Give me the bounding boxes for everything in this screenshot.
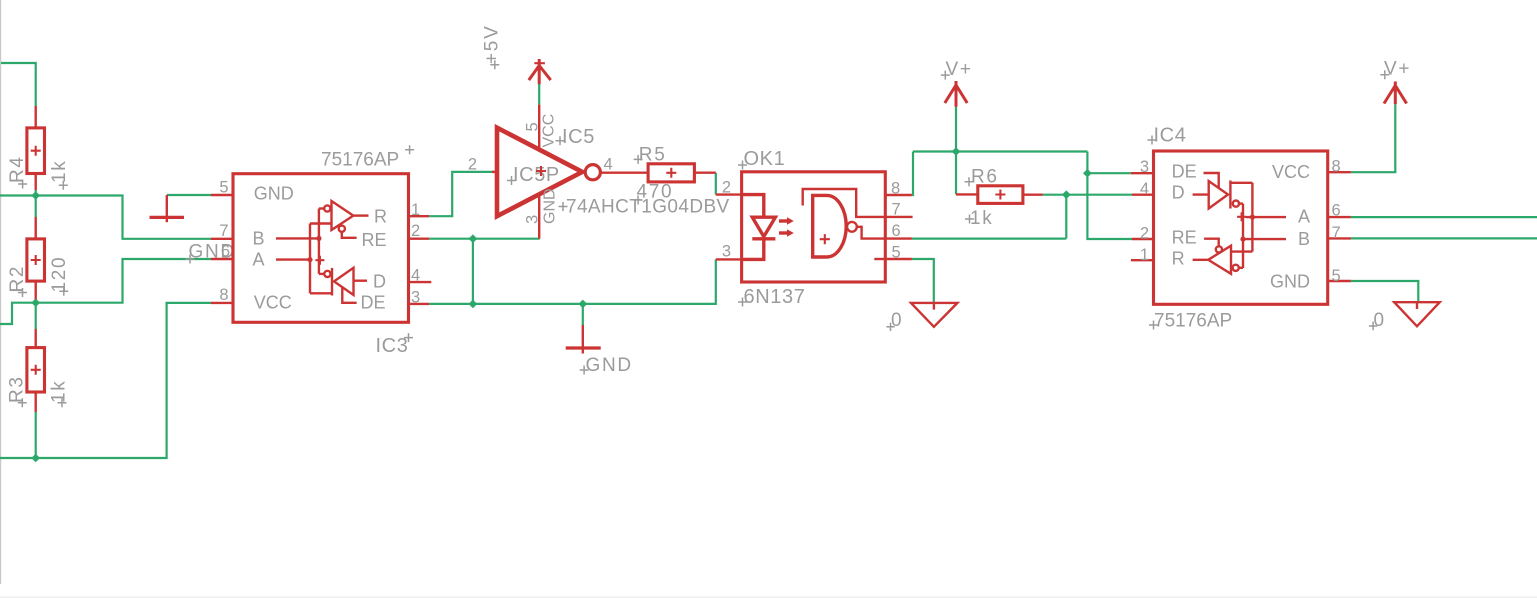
wire: IC3 pin1 to IC5 input [429,172,494,216]
resistor R6 [956,186,1043,204]
svg-text:VCC: VCC [1272,162,1310,182]
OK1 light arrows [779,217,794,237]
wire: node to R3 top [35,303,37,329]
wire: node R2/R3 to left edge [0,303,36,324]
wire: R5 to OK1 pin2 [715,173,717,195]
wire: R6 right to IC4 pin4 [1043,194,1132,196]
svg-text:R2: R2 [7,265,28,293]
OK1 pin 3 stub [716,258,743,260]
junction: rail to IC4 pin3 [1083,169,1092,178]
IC5 output to R5 [601,171,648,173]
svg-text:2: 2 [722,178,731,196]
IC4 box 75176AP [1154,151,1328,304]
wire: rail branch to IC4 pin3 [1087,172,1131,174]
resistor R3 [27,329,45,412]
svg-text:1k: 1k [49,380,70,403]
IC3 internal driver triangle [310,268,367,303]
wire: V+ arrow drop [955,107,957,152]
svg-text:0: 0 [1374,310,1386,331]
IC3 pin 8 stub [211,302,235,304]
svg-text:4: 4 [604,156,613,174]
IC3 box 75176AP [233,174,409,323]
IC4 pin 7 stub [1327,237,1351,239]
junction: IC3 pin2 net [469,234,478,243]
svg-text:5: 5 [1332,267,1341,285]
svg-text:R: R [374,207,387,227]
svg-text:8: 8 [219,286,228,304]
svg-text:6N137: 6N137 [744,286,806,308]
IC3 pin 7 stub [211,238,235,240]
IC4 pin 4 stub [1132,193,1155,195]
IC3 pin 3 stub [407,303,429,305]
wire: GND net to IC3 pin5 [167,194,211,196]
ground symbol GND2 below long net [566,325,601,354]
svg-text:D: D [373,271,386,291]
wire: vertical between pin2 net and pin3 net [472,239,474,304]
junction: IC3 pin3 net [469,300,478,309]
svg-text:R5: R5 [639,145,667,166]
svg-text:GND: GND [1270,272,1310,292]
svg-text:DE: DE [1172,161,1197,181]
svg-text:5: 5 [892,243,901,261]
OK1 internal LED [742,195,776,260]
IC4 pin 5 stub [1327,280,1351,282]
wire: R4 bottom stub green [35,190,37,196]
svg-text:R4: R4 [7,155,28,183]
svg-text:7: 7 [1332,224,1341,242]
IC4 pin 3 stub [1131,172,1155,174]
OK1 pin 7 stub [884,216,913,218]
svg-text:1: 1 [411,201,420,219]
wire: IC4 pin8 to V+ arrow [1351,104,1395,172]
OK1 pin 5 stub [884,258,912,260]
wire: R6 net down to OK1 pin6 net [1065,195,1067,239]
svg-text:D: D [1172,182,1185,202]
wire: junction to R2 top [35,196,37,218]
wire: IC4 pin5 to ground [1351,281,1418,302]
IC3 pin 2 stub [407,237,429,239]
OK1 pin 2 stub [716,193,743,195]
svg-text:B: B [253,229,265,249]
svg-text:1: 1 [1140,246,1149,264]
svg-text:VCC: VCC [541,114,558,148]
svg-text:6: 6 [892,222,901,240]
IC3 pin 4 stub [407,281,431,283]
wire: V+ rail horizontal [913,150,1087,152]
svg-text:VCC: VCC [254,293,292,313]
svg-text:IC3: IC3 [376,335,409,357]
resistor R5 [648,164,716,182]
svg-text:R6: R6 [971,167,999,188]
IC3 pin 5 stub [211,194,235,196]
svg-text:7: 7 [219,222,228,240]
wire: OK1 pin8 up to V+ rail [912,152,913,196]
svg-text:V+: V+ [1384,59,1411,80]
wire: node R2/R3 to IC3 pin A [36,259,211,303]
svg-text:3: 3 [524,215,542,224]
svg-text:IC5P: IC5P [513,164,560,186]
svg-text:2: 2 [468,156,477,174]
IC5 input stub pin 2 [492,171,498,173]
wire: bottom node to left edge and VCC riser to IC3 pin8 [0,303,211,458]
junction: R2/R3 node [31,298,40,307]
IC3 internal receiver triangle [310,201,369,238]
wire: IC4 pin6 (A) to right edge [1351,216,1537,218]
junction: GND drop on long net [578,300,587,309]
IC4 pin 1 stub [1131,259,1155,261]
IC5 gnd stub pin 3 [538,194,540,239]
svg-text:R: R [1172,249,1185,269]
OK1 pin 6 stub [884,237,912,239]
supply V+ arrow (center) [945,81,967,107]
svg-text:5: 5 [219,178,228,196]
svg-text:DE: DE [361,292,386,312]
wire: GND drop below long net [582,304,584,325]
svg-text:8: 8 [1332,158,1341,176]
junction: R3 bottom node [31,454,40,463]
svg-text:7: 7 [892,201,901,219]
IC3 pin 1 stub [407,215,429,217]
wire: node R4/R2 horizontal to IC3 pin7 [0,196,211,239]
svg-text:1k: 1k [49,160,70,183]
IC5 vcc stub pin 5 [538,105,540,150]
svg-text:A: A [1298,206,1310,226]
svg-text:0: 0 [891,310,903,331]
svg-text:RE: RE [362,230,387,250]
wire: OK1 pin6 horizontal [912,238,1066,240]
svg-text:RE: RE [1172,228,1197,248]
resistor R2 [27,217,45,300]
svg-text:3: 3 [722,243,731,261]
svg-text:5: 5 [524,122,542,131]
svg-text:V+: V+ [946,59,973,80]
junction: R4/R2 node [31,191,40,200]
IC4 pin 8 stub [1327,171,1351,173]
junction: V+ rail [952,147,961,156]
svg-text:8: 8 [891,179,900,197]
svg-text:IC5: IC5 [562,126,595,148]
svg-text:GND: GND [254,184,294,204]
ground symbol 0 near OK1 pin5 [911,303,957,327]
wire: rail down to IC4 pin2 [1087,152,1132,240]
OK1 internal detector gate [803,189,884,259]
svg-text:GND: GND [542,188,559,224]
wire: V+ rail down to R6 left [955,152,957,195]
supply V+ arrow (right) [1384,82,1407,105]
svg-text:3: 3 [411,288,420,306]
svg-text:R3: R3 [7,375,28,403]
wire: R2 bottom to node [35,300,37,303]
IC4 internal driver triangle [1193,173,1253,209]
svg-text:GND: GND [586,355,633,376]
svg-text:A: A [253,250,265,270]
svg-text:4: 4 [1140,180,1149,198]
ground symbol GND1 near IC3 pin5 [150,195,185,222]
svg-text:2: 2 [411,222,420,240]
IC5 inverter triangle 74AHCT1G04 [497,128,600,217]
wire: +5V to IC5 vcc pin [538,82,540,105]
wire: IC3 pin3 long net to OK1 pin3 [429,259,716,304]
ground symbol 0 near IC4 pin5 [1394,302,1440,326]
svg-text:75176AP: 75176AP [1154,311,1232,332]
IC4 internal A/B output lines [1237,183,1286,268]
svg-text:4: 4 [411,267,420,285]
OK1 box 6N137 optocoupler [742,172,886,282]
IC3 pin 6 stub [211,258,235,260]
svg-text:OK1: OK1 [744,148,786,170]
svg-text:IC4: IC4 [1154,125,1187,147]
svg-text:6: 6 [1332,202,1341,220]
svg-text:B: B [1298,229,1310,249]
svg-text:2: 2 [1140,224,1149,242]
junction: R6 right node [1062,190,1071,199]
svg-text:120: 120 [49,256,70,293]
svg-text:+5V: +5V [482,25,503,64]
IC3 internal B/A input lines [276,209,324,294]
wire: IC3 pin2 to IC5 pin3 [429,238,540,240]
IC4 pin 6 stub [1327,216,1351,218]
wire: left edge to R4 top [1,63,36,106]
wire: IC4 pin7 (B) to right edge [1351,237,1537,239]
IC4 pin 2 stub [1132,238,1155,240]
IC4 internal receiver triangle [1193,239,1253,274]
OK1 pin 8 stub [884,194,912,196]
wire: R3 bottom to node [35,412,37,458]
supply +5V arrow [529,59,551,84]
wire: OK1 pin5 to ground [912,259,934,302]
svg-text:75176AP: 75176AP [321,149,399,170]
svg-text:6: 6 [221,243,230,261]
resistor R4 [27,106,45,190]
svg-text:3: 3 [1140,158,1149,176]
